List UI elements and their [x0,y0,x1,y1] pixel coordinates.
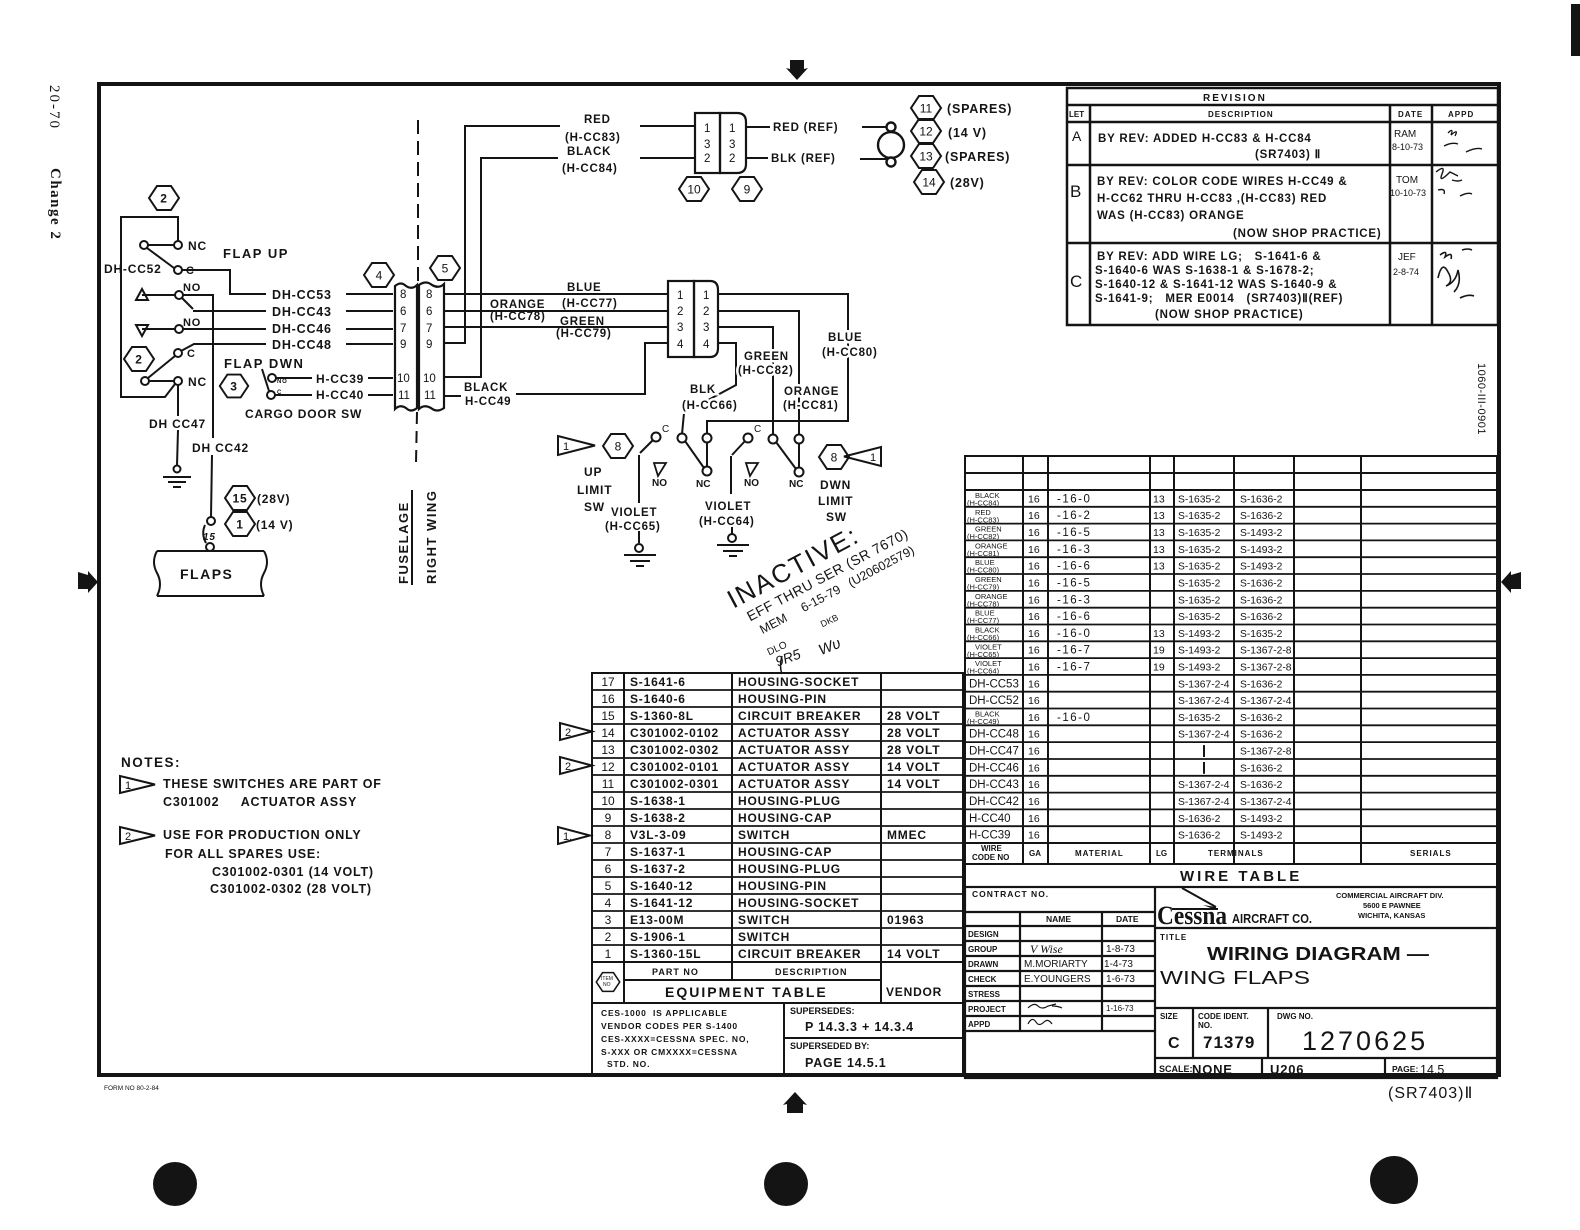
label spares 11 [947,102,1012,116]
svg-text:M.MORIARTY: M.MORIARTY [1024,959,1088,970]
wire table row VIOLET(H-CC64) [967,659,1292,676]
hexagon 3 number [230,380,237,394]
svg-text:16: 16 [1028,527,1040,539]
notes heading [121,755,181,770]
svg-text:(H-CC77): (H-CC77) [562,298,618,310]
svg-text:S-1493-2: S-1493-2 [1240,831,1283,842]
svg-text:REVISION: REVISION [1203,93,1267,104]
svg-text:DATE: DATE [1398,110,1423,119]
connector J4 plug column [395,284,417,411]
svg-text:(H-CC82): (H-CC82) [738,365,794,377]
wire DH-CC46 [183,328,393,330]
wire DH-CC53 from S1 C to connector pin 8 [182,270,393,294]
panel connector pin numbers [677,290,710,351]
svg-text:1.: 1. [563,831,572,843]
svg-text:ACTUATOR ASSY: ACTUATOR ASSY [738,743,850,757]
svg-text:-16-0: -16-0 [1057,628,1091,640]
equipment item no hex [596,973,619,992]
svg-text:S-1640-12 & S-1641-12 WAS S-16: S-1640-12 & S-1641-12 WAS S-1640-9 & [1095,279,1337,291]
wire table row H-CC40 [969,813,1283,825]
wire DH-CC47 to ground [177,385,178,465]
svg-text:SUPERSEDES:: SUPERSEDES: [790,1006,855,1016]
equipment row item 3 [605,913,925,927]
svg-text:16: 16 [1028,762,1040,774]
svg-text:-16-5: -16-5 [1057,527,1091,539]
ref connector plug column [695,113,720,173]
wire BLK H-CC66 pin4 drop [682,343,736,434]
svg-text:10: 10 [687,183,701,197]
svg-text:WING FLAPS: WING FLAPS [1160,968,1310,988]
svg-text:11: 11 [398,390,410,402]
svg-text:DH-CC53: DH-CC53 [272,288,332,302]
svg-text:16: 16 [1028,493,1040,505]
svg-text:TOM: TOM [1396,175,1418,186]
svg-text:S-1367-2-4: S-1367-2-4 [1178,730,1230,741]
svg-text:H-CC39: H-CC39 [316,372,364,386]
svg-text:C301002-0101: C301002-0101 [630,760,719,774]
svg-text:(H-CC65): (H-CC65) [967,650,1000,659]
svg-text:S-XXX OR CMXXXX=CESSNA: S-XXX OR CMXXXX=CESSNA [601,1047,738,1057]
svg-text:16: 16 [1028,611,1040,623]
svg-text:E.YOUNGERS: E.YOUNGERS [1024,974,1091,985]
svg-text:(H-CC79): (H-CC79) [556,328,612,340]
svg-text:16: 16 [1028,561,1040,573]
svg-text:PROJECT: PROJECT [968,1005,1006,1014]
svg-text:S-1635-2: S-1635-2 [1178,562,1221,573]
cargo switch tiny NO [277,379,288,385]
hexagon 2 lower number [135,353,142,367]
flag hexagon 2 (lower) [124,347,154,371]
wire BLUE H-CC80 pin1 to limit switch bus [707,294,848,434]
NC label up limit [696,479,710,490]
svg-text:19: 19 [1153,645,1165,657]
hexagon 15 number [233,492,248,506]
svg-text:13: 13 [1153,510,1165,522]
drawing title [1160,944,1429,988]
down limit switch common [731,434,753,495]
svg-text:Cessna: Cessna [1157,901,1227,930]
svg-text:1270625: 1270625 [1302,1026,1428,1056]
approval row labels [968,930,1006,1029]
revision row A appd scribble [1444,130,1482,152]
svg-text:GROUP: GROUP [968,945,998,954]
motor wire labels [682,332,878,412]
flap position breaker switch [203,517,215,551]
flag pointer 1 to up limit sw [558,436,595,455]
svg-text:16: 16 [1028,813,1040,825]
svg-text:13: 13 [1153,628,1165,640]
svg-text:-16-6: -16-6 [1057,561,1091,573]
left edge alignment arrow [78,571,98,593]
label RED H-CC83 [565,114,621,144]
NO label S3 [183,317,201,329]
svg-text:H-CC39: H-CC39 [969,830,1011,842]
svg-text:(H-CC66): (H-CC66) [682,400,738,412]
svg-text:S-1635-2: S-1635-2 [1178,612,1221,623]
svg-text:NO: NO [183,317,201,329]
svg-text:HOUSING-PLUG: HOUSING-PLUG [738,794,841,808]
svg-text:NAME: NAME [1046,914,1071,924]
svg-text:(H-CC83): (H-CC83) [565,132,621,144]
equipment row item 8 [605,828,927,842]
svg-text:-16-7: -16-7 [1057,645,1091,657]
svg-text:S-1641-9; MER E0014 (SR740: S-1641-9; MER E0014 (SR7403)Ⅱ(REF) [1095,292,1343,305]
svg-text:S-1367-2-4: S-1367-2-4 [1178,696,1230,707]
svg-text:-16-0: -16-0 [1057,712,1091,724]
switch S1 flap-up (DH-CC52) [140,241,182,274]
ground for H-CC64 [717,527,749,556]
svg-text:S-1367-2-4: S-1367-2-4 [1240,797,1292,808]
svg-text:VIOLET: VIOLET [705,501,751,513]
label VIOLET H-CC65 [605,507,661,533]
supersedes box [784,1003,963,1038]
svg-text:S-1635-2: S-1635-2 [1178,713,1221,724]
svg-text:10: 10 [423,373,436,385]
wire table data [967,491,1292,842]
flag hexagon 12 14V [911,119,941,143]
svg-text:1-6-73: 1-6-73 [1106,974,1135,985]
ref connector pin numbers [704,123,735,165]
svg-text:14: 14 [601,726,615,740]
svg-text:SWITCH: SWITCH [738,930,790,944]
svg-text:NC: NC [696,479,710,490]
revision table frame [1067,88,1498,325]
svg-text:16: 16 [1028,729,1040,741]
wire label DH-CC53 [272,288,332,302]
svg-text:HOUSING-SOCKET: HOUSING-SOCKET [738,675,859,689]
switch S2 NO contact (flap up motor) [136,289,193,309]
svg-text:DATE: DATE [1116,914,1139,924]
flag hexagon 5 [430,256,460,280]
label BLUE H-CC77 [562,282,618,310]
svg-text:28 VOLT: 28 VOLT [887,726,940,740]
svg-text:8: 8 [426,289,432,301]
size cell [1160,1012,1180,1052]
svg-text:7: 7 [400,323,406,335]
svg-text:2: 2 [160,192,167,206]
svg-text:SWITCH: SWITCH [738,913,790,927]
svg-text:2-8-74: 2-8-74 [1393,267,1419,277]
wire table row BLACK(H-CC84) [967,491,1283,508]
wire table row RED(H-CC83) [967,508,1283,525]
RIGHT WING vertical label [424,490,439,584]
project signature scribble [1028,1004,1134,1013]
label GREEN H-CC82 [738,351,794,377]
svg-text:HOUSING-PIN: HOUSING-PIN [738,879,827,893]
NC label S1 [188,239,207,253]
svg-text:1: 1 [236,518,243,532]
title label [1160,933,1187,942]
svg-text:C: C [277,390,282,396]
svg-text:(H-CC66): (H-CC66) [967,633,1000,642]
flag hexagon 11 spares [911,96,941,120]
svg-text:WIRE TABLE: WIRE TABLE [1180,868,1302,885]
svg-text:(NOW SHOP PRACTICE): (NOW SHOP PRACTICE) [1233,228,1382,240]
svg-text:S-1640-12: S-1640-12 [630,879,693,893]
svg-text:DH-CC43: DH-CC43 [272,305,332,319]
svg-text:9: 9 [744,183,751,197]
flag hexagon 13 spares [911,144,941,168]
svg-text:1-16-73: 1-16-73 [1106,1004,1134,1013]
C label S4 [187,348,196,360]
svg-text:Wʋ: Wʋ [816,635,843,659]
svg-text:C301002-0301: C301002-0301 [630,777,719,791]
svg-text:ACTUATOR ASSY: ACTUATOR ASSY [738,760,850,774]
svg-text:NC: NC [789,479,803,490]
svg-text:VENDOR: VENDOR [886,985,942,999]
svg-text:DH-CC42: DH-CC42 [969,796,1019,808]
flag hexagon 8 down limit [819,445,849,469]
svg-text:S-1636-2: S-1636-2 [1240,579,1283,590]
svg-text:16: 16 [1028,510,1040,522]
equipment flag 1 row 8 [558,827,590,844]
svg-text:S-1635-2: S-1635-2 [1178,595,1221,606]
equipment row item 2 [605,930,790,944]
equipment row item 16 [601,692,826,706]
svg-text:BLUE: BLUE [828,332,863,344]
svg-text:13: 13 [1153,493,1165,505]
svg-text:HOUSING-PIN: HOUSING-PIN [738,692,827,706]
inactive note line 3 [757,543,916,637]
label 28V [950,176,985,190]
14V label [256,518,293,532]
appd signature scribble [1028,1019,1052,1024]
svg-text:NO.: NO. [1198,1021,1212,1030]
svg-text:NOTES:: NOTES: [121,755,181,770]
label ORANGE H-CC81 [783,386,839,412]
flag hexagon 15 (28V breaker) [225,486,255,510]
hexagon 2 top number [160,192,167,206]
wire table title [1180,868,1302,885]
label GREEN H-CC79 [556,316,612,340]
svg-text:PART NO: PART NO [652,967,699,977]
change 2 label [47,168,63,240]
svg-text:H-CC40: H-CC40 [316,388,364,402]
svg-text:1: 1 [870,452,876,464]
label BLACK H-CC84 [562,146,618,175]
cargo door switch [262,369,276,399]
svg-text:BY REV: ADDED H-CC83 & H-CC84: BY REV: ADDED H-CC83 & H-CC84 [1098,133,1312,145]
note flag 2 [120,827,155,844]
svg-text:Change 2: Change 2 [47,168,63,240]
ref connector cap column rounded [720,113,746,173]
svg-text:S-1493-2: S-1493-2 [1240,562,1283,573]
equipment row item 4 [605,896,860,910]
svg-text:TITLE: TITLE [1160,933,1187,942]
svg-text:(H-CC84): (H-CC84) [967,499,1000,508]
label BLACK H-CC49 [464,382,511,408]
svg-text:ORANGE: ORANGE [784,386,839,398]
svg-text:FOR ALL SPARES USE:: FOR ALL SPARES USE: [165,847,321,861]
wire DH-CC48 [181,344,393,351]
down limit NO contact [744,463,759,489]
superseded by box [784,1038,963,1074]
wire table row BLACK(H-CC49) [967,710,1283,727]
equipment row item 14 [601,726,940,740]
svg-text:C301002-0102: C301002-0102 [630,726,719,740]
svg-text:16: 16 [1028,796,1040,808]
wire table row DH-CC52 [969,695,1292,707]
equipment row item 12 [601,760,940,774]
flag hexagon 9 [732,177,762,201]
C label S1 [186,265,195,277]
dwg no cell [1277,1012,1428,1056]
svg-text:9: 9 [605,811,612,825]
svg-text:S-1640-6: S-1640-6 [630,692,686,706]
wire table row DH-CC42 [969,796,1292,808]
svg-text:S-1635-2: S-1635-2 [1178,579,1221,590]
svg-text:S-1360-8L: S-1360-8L [630,709,694,723]
DH CC42 wire label [192,441,249,455]
title block frame [965,887,1497,1078]
svg-text:(H-CC81): (H-CC81) [783,400,839,412]
flag hexagon 2 (top) [149,186,179,210]
svg-text:BLK (REF): BLK (REF) [771,153,836,165]
svg-text:1: 1 [125,780,131,792]
svg-text:FORM NO 80-2-84: FORM NO 80-2-84 [104,1085,159,1092]
svg-text:S-1638-2: S-1638-2 [630,811,686,825]
wire left bracket to switches [121,217,178,397]
svg-text:15: 15 [233,492,248,506]
svg-text:S-1367-2-4: S-1367-2-4 [1178,679,1230,690]
svg-text:C: C [187,348,196,360]
svg-text:3: 3 [605,913,612,927]
wire table row BLACK(H-CC66) [967,626,1283,643]
NC label down limit [789,479,803,490]
equipment table row lines [592,690,963,945]
svg-text:15: 15 [601,709,615,723]
svg-text:4: 4 [605,896,612,910]
equipment row item 6 [605,862,841,876]
ground for H-CC65 [624,544,656,566]
svg-text:S-1636-2: S-1636-2 [1178,831,1221,842]
svg-text:1: 1 [605,947,612,961]
wire H-CC40 [275,394,393,396]
svg-text:CARGO DOOR SW: CARGO DOOR SW [245,407,362,421]
svg-text:(28V): (28V) [950,176,985,190]
svg-text:STD. NO.: STD. NO. [607,1059,650,1069]
svg-text:(28V): (28V) [257,492,290,506]
svg-text:15: 15 [203,532,216,543]
svg-text:2: 2 [605,930,612,944]
wire label DH-CC48 [272,338,332,352]
column headers [1069,110,1474,119]
svg-text:28 VOLT: 28 VOLT [887,709,940,723]
svg-text:COMMERCIAL AIRCRAFT DIV.: COMMERCIAL AIRCRAFT DIV. [1336,891,1444,900]
up limit switch common [640,433,661,454]
svg-text:FLAP DWN: FLAP DWN [224,356,304,371]
svg-text:1: 1 [677,290,683,302]
svg-text:C: C [754,424,761,435]
equipment row item 17 [601,675,859,689]
svg-text:2: 2 [125,831,131,843]
svg-text:CODE NO: CODE NO [972,853,1009,862]
svg-text:DH-CC46: DH-CC46 [272,322,332,336]
label VIOLET H-CC64 [699,501,755,528]
svg-text:C301002-0302 (28 VOLT): C301002-0302 (28 VOLT) [210,882,372,896]
svg-text:C301002 ACTUATOR ASSY: C301002 ACTUATOR ASSY [163,795,357,809]
svg-text:S-1906-1: S-1906-1 [630,930,686,944]
page number 20-70 [46,85,62,130]
wire BLACK H-CC84 pin10 riser [444,158,695,377]
drawn signature [1024,959,1133,970]
inactive note line 2 [744,525,911,624]
svg-text:S-1635-2: S-1635-2 [1240,629,1283,640]
ground symbol (DH-CC47) [163,466,191,488]
svg-text:14 VOLT: 14 VOLT [887,777,940,791]
svg-text:2: 2 [703,306,709,318]
svg-text:BLACK: BLACK [464,382,508,394]
svg-text:16: 16 [601,692,615,706]
equipment footer DESCRIPTION [775,967,848,977]
wire DH-CC43 [193,310,393,312]
left circuit text labels [104,192,364,583]
svg-text:AIRCRAFT CO.: AIRCRAFT CO. [1232,911,1312,926]
note 1 text [163,777,382,809]
svg-text:WAS (H-CC83) ORANGE: WAS (H-CC83) ORANGE [1097,210,1244,222]
svg-text:10-10-73: 10-10-73 [1390,188,1426,198]
NC label S4 [188,375,207,389]
C label up limit [662,424,669,435]
wire label H-CC39 [316,372,364,386]
svg-text:BLUE: BLUE [567,282,602,294]
flag hexagon 8 up limit [603,434,633,458]
revision row B appd scribble [1436,168,1472,196]
svg-text:(14 V): (14 V) [948,126,987,140]
svg-text:H-CC49: H-CC49 [465,396,511,408]
CES vendor code note box [592,1003,784,1074]
svg-text:ACTUATOR ASSY: ACTUATOR ASSY [738,777,850,791]
switch S3 NO contact (flap down motor) [136,325,183,336]
vendor heading [886,985,942,999]
wire table row DH-CC48 [969,729,1283,741]
label BLUE H-CC80 [822,332,878,359]
flag hexagon 1 (14V breaker) [225,512,255,536]
svg-text:H-CC40: H-CC40 [969,813,1011,825]
svg-text:1: 1 [563,441,569,453]
svg-text:-16-3: -16-3 [1057,594,1091,606]
svg-text:DH CC42: DH CC42 [192,441,249,455]
svg-text:C: C [662,424,669,435]
scale row [1159,1062,1444,1077]
svg-text:3: 3 [704,139,710,151]
svg-text:FLAPS: FLAPS [180,566,233,582]
fuselage / right wing divider [396,120,439,585]
flag hexagon 10 [679,177,709,201]
svg-text:5: 5 [442,262,449,276]
wire table row GREEN(H-CC82) [967,525,1283,542]
svg-text:ORANGE: ORANGE [490,299,545,311]
svg-text:DH-CC48: DH-CC48 [272,338,332,352]
flag hexagon 14 28V [914,170,944,194]
wire table ditto marks [1203,745,1205,774]
inactive initials scribbles [766,612,844,674]
svg-text:UP: UP [584,465,602,479]
down limit sw caption [818,478,853,524]
DH-CC52 label [104,262,162,276]
28V label [257,492,290,506]
wire H-CC39 [276,377,393,379]
svg-text:DWG NO.: DWG NO. [1277,1012,1313,1021]
svg-text:(H-CC79): (H-CC79) [967,583,1000,592]
svg-text:GREEN: GREEN [560,316,605,328]
corner tab black [1571,4,1580,56]
SR7403 handwritten note [1388,1085,1473,1102]
svg-text:10: 10 [601,794,615,808]
wire GREEN H-CC82 pin3 drop [718,327,773,435]
svg-text:S-1367-2-4: S-1367-2-4 [1178,780,1230,791]
svg-text:14.5: 14.5 [1420,1063,1444,1077]
